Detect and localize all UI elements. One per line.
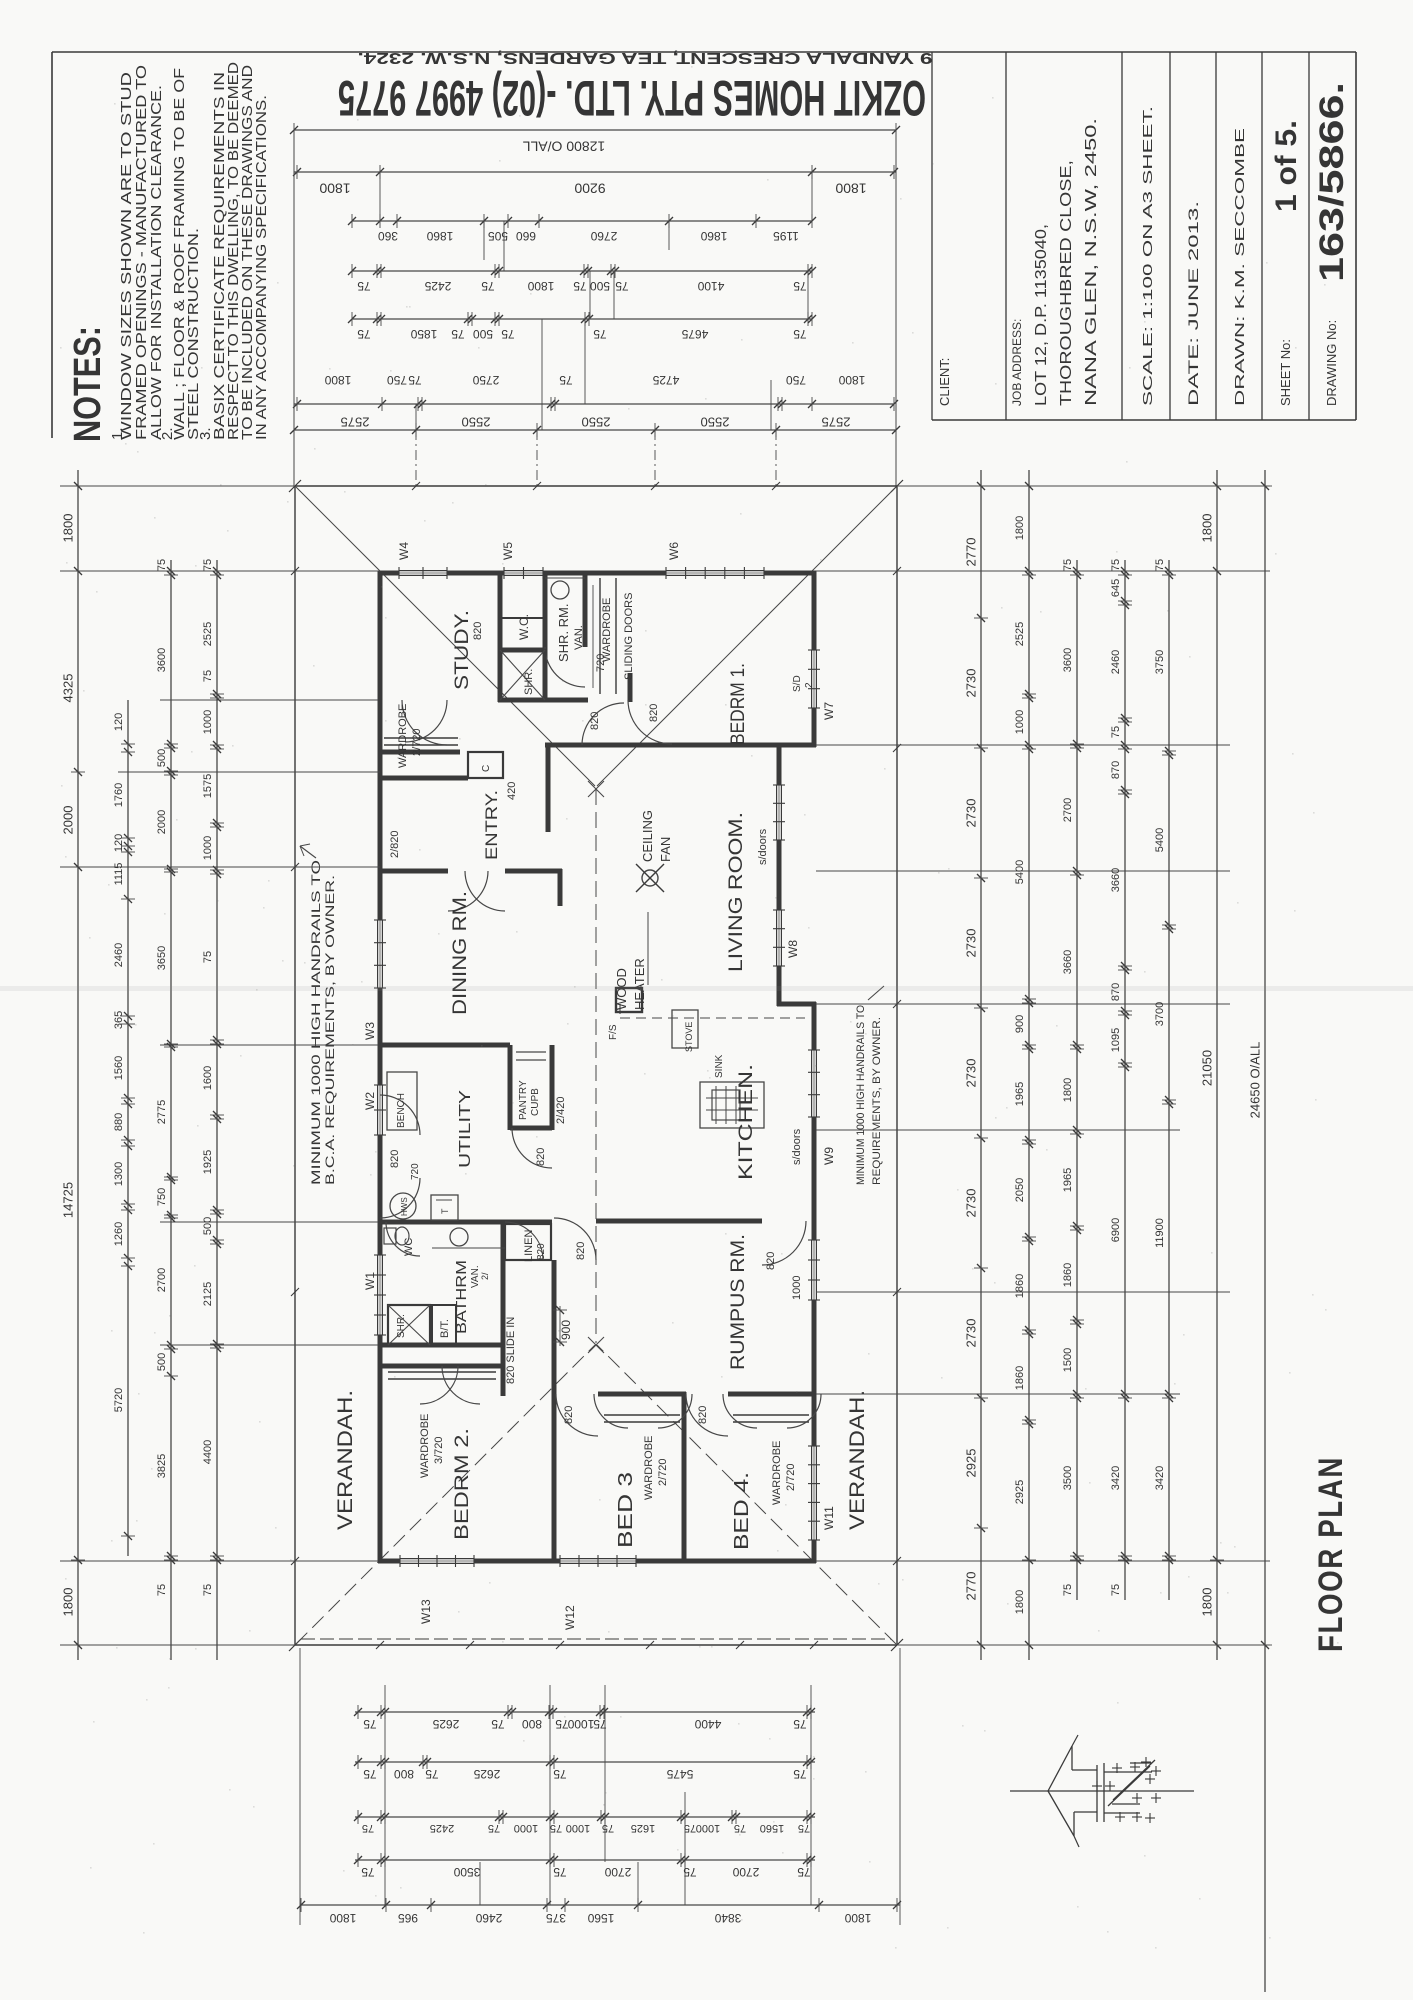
svg-text:s/doors: s/doors bbox=[791, 1128, 803, 1165]
bottom dim row 4 bbox=[354, 1853, 815, 1879]
svg-text:4725: 4725 bbox=[652, 373, 679, 387]
svg-text:T: T bbox=[440, 1208, 450, 1214]
svg-text:3840: 3840 bbox=[714, 1911, 741, 1925]
svg-text:75: 75 bbox=[793, 327, 807, 341]
svg-text:75: 75 bbox=[1154, 559, 1166, 571]
svg-text:CEILING: CEILING bbox=[640, 810, 655, 862]
svg-text:F/S: F/S bbox=[608, 1024, 619, 1040]
svg-text:FAN: FAN bbox=[658, 837, 673, 862]
svg-text:2925: 2925 bbox=[1014, 1480, 1026, 1504]
svg-text:1860: 1860 bbox=[426, 229, 453, 243]
svg-text:75: 75 bbox=[357, 279, 371, 293]
svg-text:3420: 3420 bbox=[1154, 1466, 1166, 1490]
wall bed3/bed4 divider bbox=[682, 1392, 687, 1563]
svg-text:2/420: 2/420 bbox=[555, 1096, 567, 1124]
label KITCHEN bbox=[736, 1064, 757, 1180]
svg-text:12800 O/ALL: 12800 O/ALL bbox=[523, 138, 606, 154]
svg-text:75: 75 bbox=[734, 1822, 746, 1834]
wall bed1 west stub bbox=[628, 673, 633, 702]
wood heater box bbox=[616, 912, 648, 1012]
svg-text:1000: 1000 bbox=[696, 1822, 720, 1834]
label WC ensuite bbox=[517, 614, 531, 640]
text SCALE bbox=[1140, 106, 1155, 406]
window W3 bbox=[363, 920, 386, 1040]
handrail note left bbox=[309, 860, 337, 1185]
svg-text:75: 75 bbox=[1062, 1584, 1074, 1596]
bed3 wardrobe slides bbox=[604, 1415, 680, 1422]
utility bench bbox=[387, 1072, 417, 1130]
svg-text:500: 500 bbox=[473, 327, 493, 341]
svg-text:1300: 1300 bbox=[113, 1162, 125, 1186]
svg-text:2000: 2000 bbox=[156, 810, 168, 834]
svg-text:75: 75 bbox=[202, 559, 214, 571]
svg-text:500: 500 bbox=[156, 1353, 168, 1371]
svg-text:4325: 4325 bbox=[60, 674, 75, 703]
svg-text:75: 75 bbox=[593, 327, 607, 341]
svg-text:B.C.A. REQUIREMENTS, BY OWNER.: B.C.A. REQUIREMENTS, BY OWNER. bbox=[323, 875, 337, 1185]
svg-text:2/720: 2/720 bbox=[785, 1463, 797, 1491]
svg-text:75: 75 bbox=[156, 1584, 168, 1596]
handrail note right leader bbox=[868, 986, 884, 1000]
wall study right bbox=[498, 573, 503, 702]
label VERANDAH right bbox=[846, 1390, 869, 1530]
wall ensuite bottom bbox=[498, 698, 588, 703]
svg-text:820: 820 bbox=[575, 1242, 587, 1260]
svg-text:2770: 2770 bbox=[963, 538, 978, 567]
svg-text:1115: 1115 bbox=[113, 863, 125, 886]
label 820 pantry bbox=[535, 1148, 547, 1166]
label 820 utility doors bbox=[389, 1150, 421, 1180]
svg-text:75: 75 bbox=[684, 1822, 696, 1834]
dim row 2425 1800 4100 bbox=[348, 264, 816, 293]
svg-text:75: 75 bbox=[793, 1767, 807, 1781]
svg-text:9 YANDALA CRESCENT, TEA GARDEN: 9 YANDALA CRESCENT, TEA GARDENS, N.S.W. … bbox=[358, 49, 933, 66]
extension lines right bbox=[816, 486, 1270, 1645]
svg-text:800: 800 bbox=[522, 1717, 542, 1731]
svg-text:720: 720 bbox=[410, 1163, 421, 1180]
svg-text:660: 660 bbox=[516, 229, 536, 243]
door arc bed1 820 bbox=[628, 700, 672, 744]
label wardrobe study bbox=[397, 704, 423, 768]
right chain 24650 overall bbox=[1247, 470, 1272, 1992]
label PANTRY CUPB bbox=[518, 1080, 541, 1120]
notes body text bbox=[109, 62, 270, 440]
svg-text:W11: W11 bbox=[822, 1506, 836, 1530]
svg-text:1625: 1625 bbox=[631, 1822, 655, 1834]
window W12 bbox=[560, 1555, 636, 1630]
label ENTRY bbox=[482, 790, 501, 860]
svg-text:5475: 5475 bbox=[666, 1767, 693, 1781]
wall bath/bed2 y1345 bbox=[380, 1343, 505, 1348]
door arc dining second bbox=[465, 871, 505, 911]
right chain 5 bbox=[1154, 559, 1176, 1600]
label wardrobe bed2 bbox=[419, 1414, 445, 1478]
door arc ensuite 720 bbox=[545, 647, 585, 687]
svg-text:820: 820 bbox=[536, 1243, 547, 1260]
svg-text:900: 900 bbox=[559, 1320, 573, 1340]
svg-text:NOTES:: NOTES: bbox=[67, 326, 109, 442]
door arc wc bbox=[386, 1222, 420, 1256]
svg-text:ENTRY.: ENTRY. bbox=[482, 790, 501, 860]
svg-text:BED 4.: BED 4. bbox=[731, 1472, 753, 1550]
wall entry/living stub bbox=[546, 743, 551, 832]
svg-text:1850: 1850 bbox=[410, 327, 437, 341]
dim row window positions bbox=[348, 214, 816, 243]
svg-text:S/D: S/D bbox=[792, 675, 803, 692]
sliding doors living bbox=[757, 785, 785, 865]
svg-text:75: 75 bbox=[408, 373, 422, 387]
svg-text:W13: W13 bbox=[419, 1599, 433, 1624]
svg-text:3420: 3420 bbox=[1110, 1466, 1122, 1490]
label CEILING FAN bbox=[640, 810, 673, 862]
title block dividers bbox=[932, 52, 1309, 420]
label wardrobe bed3 bbox=[643, 1436, 669, 1500]
label SHR ensuite small bbox=[523, 669, 535, 695]
svg-text:1800: 1800 bbox=[1014, 1590, 1026, 1614]
label BED 4 bbox=[731, 1472, 753, 1550]
svg-text:21050: 21050 bbox=[1199, 1050, 1214, 1086]
window 1000 rumpus bbox=[791, 1240, 820, 1300]
svg-text:DRAWN: K.M. SECCOMBE: DRAWN: K.M. SECCOMBE bbox=[1232, 127, 1247, 406]
svg-text:W9: W9 bbox=[822, 1147, 836, 1165]
wall utility/bath y1222 bbox=[380, 1220, 552, 1225]
text THOROUGHBRED CLOSE bbox=[1058, 160, 1075, 406]
north arrow bbox=[1010, 1735, 1194, 1847]
dim row 9200 bbox=[293, 165, 898, 196]
svg-text:75: 75 bbox=[202, 1584, 214, 1596]
label SLIDING DOORS bbox=[623, 593, 635, 680]
svg-text:1000: 1000 bbox=[514, 1822, 538, 1834]
svg-text:LOT 12, D.P. 1135040,: LOT 12, D.P. 1135040, bbox=[1033, 224, 1050, 406]
svg-text:2/820: 2/820 bbox=[389, 830, 401, 858]
svg-text:BENCH: BENCH bbox=[396, 1093, 407, 1128]
svg-text:75: 75 bbox=[1110, 559, 1122, 571]
svg-text:1800: 1800 bbox=[1014, 516, 1026, 540]
svg-text:2760: 2760 bbox=[590, 229, 617, 243]
exterior wall jog at bed1/living bbox=[777, 743, 816, 748]
label JOB ADDRESS bbox=[1010, 319, 1024, 406]
svg-text:1965: 1965 bbox=[1014, 1082, 1026, 1106]
svg-text:WC: WC bbox=[403, 1238, 415, 1256]
svg-text:WARDROBE: WARDROBE bbox=[419, 1414, 431, 1478]
extension lines left bbox=[60, 486, 380, 1645]
label SHEET No bbox=[1278, 339, 1293, 406]
door arc bed2 robe 1 bbox=[420, 1366, 458, 1404]
label 820 bed4 bbox=[697, 1406, 709, 1424]
left chain overall bbox=[60, 470, 85, 1660]
svg-text:75: 75 bbox=[156, 559, 168, 571]
svg-text:720: 720 bbox=[595, 654, 607, 672]
svg-text:1965: 1965 bbox=[1062, 1168, 1074, 1192]
svg-text:75: 75 bbox=[202, 951, 214, 963]
svg-text:1800: 1800 bbox=[527, 279, 554, 293]
wall hall/bed3 x554 bbox=[552, 1260, 557, 1563]
svg-text:MINIMUM 1000 HIGH HANDRAILS TO: MINIMUM 1000 HIGH HANDRAILS TO bbox=[309, 860, 323, 1185]
svg-text:3660: 3660 bbox=[1110, 868, 1122, 892]
svg-text:75: 75 bbox=[602, 1822, 614, 1834]
exterior wall top bbox=[378, 571, 816, 576]
svg-text:BATHRM: BATHRM bbox=[453, 1260, 470, 1334]
dim row 2750 4725 bbox=[293, 373, 898, 411]
svg-text:24650 O/ALL: 24650 O/ALL bbox=[1247, 1042, 1262, 1119]
svg-text:WARDROBE: WARDROBE bbox=[643, 1436, 655, 1500]
dim row 2575 2550 bbox=[290, 415, 900, 437]
label BEDRM 1 bbox=[728, 663, 749, 745]
label STUDY bbox=[452, 610, 473, 690]
label 820 ensuite door bbox=[589, 712, 601, 730]
svg-text:HWS: HWS bbox=[400, 1197, 409, 1216]
door arc bed4 820 bbox=[686, 1394, 728, 1436]
svg-text:2/720: 2/720 bbox=[411, 728, 423, 756]
svg-text:UTILITY: UTILITY bbox=[457, 1090, 474, 1168]
svg-text:2730: 2730 bbox=[963, 1319, 978, 1348]
scan streak bbox=[0, 986, 1413, 991]
svg-text:1600: 1600 bbox=[202, 1066, 214, 1090]
wall entry south bbox=[380, 776, 468, 781]
label DRAWING No bbox=[1324, 320, 1339, 406]
svg-text:820: 820 bbox=[472, 622, 484, 640]
label LINEN bbox=[523, 1230, 547, 1262]
label WC bath bbox=[403, 1238, 415, 1256]
svg-text:2925: 2925 bbox=[963, 1449, 978, 1478]
svg-text:CUPB: CUPB bbox=[530, 1088, 541, 1116]
svg-text:1000: 1000 bbox=[202, 710, 214, 734]
bath tub bbox=[432, 1305, 456, 1345]
label 2/820 dining bbox=[389, 830, 401, 858]
svg-text:365: 365 bbox=[113, 1011, 125, 1029]
wall dining east stub bbox=[558, 869, 563, 906]
sheet right border bbox=[1355, 52, 1357, 420]
svg-text:3825: 3825 bbox=[156, 1454, 168, 1478]
svg-text:2/: 2/ bbox=[480, 1272, 490, 1280]
svg-text:3660: 3660 bbox=[1062, 950, 1074, 974]
svg-text:3500: 3500 bbox=[453, 1865, 480, 1879]
text address line bbox=[358, 49, 933, 66]
svg-text:2125: 2125 bbox=[202, 1282, 214, 1306]
roof hip line top-right bbox=[597, 487, 896, 786]
label B/T bbox=[439, 1319, 451, 1338]
svg-text:1925: 1925 bbox=[202, 1150, 214, 1174]
wall ensuite right bbox=[583, 573, 588, 647]
shower box ensuite bbox=[500, 650, 545, 700]
bottom dim row 2 bbox=[354, 1755, 815, 1781]
svg-text:75: 75 bbox=[793, 279, 807, 293]
label VERANDAH left bbox=[334, 1390, 357, 1530]
svg-text:645: 645 bbox=[1110, 579, 1122, 597]
svg-text:BEDRM 1.: BEDRM 1. bbox=[728, 663, 749, 745]
svg-text:1760: 1760 bbox=[113, 783, 125, 807]
svg-text:2730: 2730 bbox=[963, 799, 978, 828]
bottom dim row 1 bbox=[354, 1705, 815, 1731]
exterior wall right lower bbox=[812, 1002, 817, 1563]
pantry cupboard bbox=[510, 1045, 552, 1130]
svg-text:75: 75 bbox=[1110, 1584, 1122, 1596]
svg-text:SHEET No:: SHEET No: bbox=[1278, 339, 1293, 406]
exterior wall bottom bbox=[378, 1559, 816, 1564]
svg-text:965: 965 bbox=[398, 1911, 418, 1925]
svg-text:SCALE: 1:100 ON A3 SHEET.: SCALE: 1:100 ON A3 SHEET. bbox=[1140, 106, 1155, 406]
door arc bed3 robe bbox=[594, 1394, 692, 1428]
label WOOD HEATER bbox=[614, 958, 647, 1010]
svg-text:2730: 2730 bbox=[963, 1189, 978, 1218]
svg-text:W3: W3 bbox=[363, 1022, 377, 1040]
svg-text:1800: 1800 bbox=[60, 1588, 75, 1617]
svg-text:75: 75 bbox=[481, 279, 495, 293]
label 820 SLIDE IN bbox=[505, 1317, 517, 1384]
sliding doors kitchen W9 bbox=[791, 1050, 836, 1165]
door arc utility left bbox=[380, 1095, 420, 1135]
label 820 rumpus door bbox=[575, 1242, 587, 1260]
bath shower box bbox=[388, 1305, 430, 1345]
text NOTES heading bbox=[67, 326, 109, 442]
svg-text:1860: 1860 bbox=[1062, 1263, 1074, 1287]
svg-text:2575: 2575 bbox=[341, 415, 370, 430]
svg-text:FLOOR PLAN: FLOOR PLAN bbox=[1312, 1456, 1350, 1652]
svg-text:1560: 1560 bbox=[587, 1911, 614, 1925]
svg-text:W8: W8 bbox=[786, 940, 800, 958]
svg-text:2000: 2000 bbox=[60, 806, 75, 835]
bed4 wardrobe slides bbox=[733, 1415, 809, 1422]
svg-text:2625: 2625 bbox=[473, 1767, 500, 1781]
svg-text:500: 500 bbox=[156, 749, 168, 767]
label SINK bbox=[714, 1054, 725, 1078]
sheet left border bbox=[51, 52, 53, 438]
svg-text:750: 750 bbox=[786, 373, 806, 387]
svg-text:2700: 2700 bbox=[1062, 798, 1074, 822]
svg-text:1000: 1000 bbox=[202, 836, 214, 860]
svg-text:1195: 1195 bbox=[773, 229, 799, 243]
kitchen sink unit bbox=[700, 1082, 764, 1128]
svg-text:75: 75 bbox=[425, 1767, 439, 1781]
svg-text:DATE: JUNE 2013.: DATE: JUNE 2013. bbox=[1185, 201, 1201, 406]
svg-text:W1: W1 bbox=[363, 1272, 377, 1290]
svg-text:WARDROBE: WARDROBE bbox=[601, 598, 613, 662]
svg-text:360: 360 bbox=[378, 229, 398, 243]
svg-text:900: 900 bbox=[1014, 1015, 1026, 1033]
svg-text:W6: W6 bbox=[667, 542, 681, 560]
kitchen stove bbox=[672, 1010, 698, 1052]
hot water system bbox=[390, 1193, 416, 1219]
handrail note right bbox=[855, 1005, 883, 1185]
svg-text:3750: 3750 bbox=[1154, 650, 1166, 674]
svg-text:W2: W2 bbox=[363, 1092, 377, 1110]
svg-text:1860: 1860 bbox=[1014, 1274, 1026, 1298]
svg-text:1260: 1260 bbox=[113, 1222, 125, 1246]
linen closet bbox=[505, 1224, 551, 1260]
door arc utility left2 bbox=[380, 1178, 420, 1218]
door arc bed2 robe 2 bbox=[442, 1366, 480, 1404]
door arc dining 2/820 bbox=[448, 871, 488, 911]
svg-text:1575: 1575 bbox=[202, 774, 214, 798]
door arc linen 820 bbox=[505, 1222, 543, 1260]
left chain C bbox=[156, 559, 178, 1660]
bottom dim row 3 bbox=[354, 1810, 815, 1834]
svg-text:75: 75 bbox=[491, 1717, 505, 1731]
svg-text:THOROUGHBRED CLOSE,: THOROUGHBRED CLOSE, bbox=[1058, 160, 1075, 406]
window W7 bbox=[808, 650, 836, 720]
svg-text:1800: 1800 bbox=[319, 180, 350, 196]
roof hip line bottom-left dashed bbox=[296, 1345, 595, 1644]
svg-text:2730: 2730 bbox=[963, 929, 978, 958]
svg-text:75: 75 bbox=[798, 1822, 810, 1834]
label UTILITY bbox=[457, 1090, 474, 1168]
svg-text:75: 75 bbox=[559, 373, 573, 387]
svg-text:75: 75 bbox=[363, 1717, 377, 1731]
svg-text:LINEN: LINEN bbox=[523, 1230, 535, 1262]
label wardrobe bed4 bbox=[771, 1441, 797, 1505]
svg-text:505: 505 bbox=[488, 229, 508, 243]
wall bed4 north bbox=[728, 1392, 814, 1397]
svg-text:2050: 2050 bbox=[1014, 1178, 1026, 1202]
svg-text:W7: W7 bbox=[822, 702, 836, 720]
right chain 2 bbox=[1014, 470, 1036, 1660]
svg-text:75: 75 bbox=[593, 1717, 607, 1731]
svg-text:2525: 2525 bbox=[1014, 622, 1026, 646]
svg-text:820: 820 bbox=[563, 1406, 575, 1424]
svg-text:OZKIT HOMES PTY. LTD. -(02) 49: OZKIT HOMES PTY. LTD. -(02) 4997 9775 bbox=[338, 70, 926, 126]
svg-text:W12: W12 bbox=[563, 1605, 577, 1630]
svg-text:75: 75 bbox=[573, 279, 587, 293]
svg-text:4100: 4100 bbox=[697, 279, 724, 293]
label SHR bath bbox=[396, 1314, 407, 1338]
left chain B bbox=[113, 700, 135, 1556]
svg-text:STOVE: STOVE bbox=[684, 1022, 694, 1052]
svg-text:LIVING ROOM.: LIVING ROOM. bbox=[726, 812, 747, 972]
svg-text:1800: 1800 bbox=[838, 373, 865, 387]
window W6 bbox=[666, 542, 764, 579]
svg-text:500: 500 bbox=[590, 279, 610, 293]
svg-text:375: 375 bbox=[546, 1911, 566, 1925]
text 163/5866 bbox=[1313, 82, 1351, 282]
svg-text:75: 75 bbox=[553, 1767, 567, 1781]
svg-text:2700: 2700 bbox=[604, 1865, 631, 1879]
wall bed3 north bbox=[598, 1392, 686, 1397]
svg-text:5720: 5720 bbox=[113, 1388, 125, 1412]
right chain 1 bbox=[963, 470, 988, 1660]
label BATHRM bbox=[453, 1260, 470, 1334]
roof ridge dashed bbox=[595, 789, 597, 1343]
roof hip line top-left bbox=[296, 487, 595, 786]
svg-text:SLIDING DOORS: SLIDING DOORS bbox=[623, 593, 635, 680]
svg-text:14725: 14725 bbox=[60, 1182, 75, 1218]
label 720 bbox=[595, 654, 607, 672]
wall wc/ensuite divider bbox=[543, 573, 548, 700]
svg-text:C: C bbox=[481, 765, 492, 772]
svg-text:2750: 2750 bbox=[472, 373, 499, 387]
title block bottom border bbox=[932, 419, 1356, 421]
svg-text:2: 2 bbox=[804, 682, 815, 688]
svg-text:3600: 3600 bbox=[156, 648, 168, 672]
svg-text:75: 75 bbox=[362, 1822, 374, 1834]
svg-text:75: 75 bbox=[550, 1822, 562, 1834]
svg-text:163/5866.: 163/5866. bbox=[1313, 82, 1351, 282]
svg-text:2700: 2700 bbox=[732, 1865, 759, 1879]
exterior wall jog at living/kitchen bbox=[777, 1002, 816, 1007]
svg-text:1000: 1000 bbox=[1014, 710, 1026, 734]
svg-text:5400: 5400 bbox=[1014, 860, 1026, 884]
svg-text:RUMPUS RM.: RUMPUS RM. bbox=[728, 1234, 749, 1370]
label 820 kitchen door bbox=[765, 1252, 777, 1270]
svg-text:s/doors: s/doors bbox=[757, 828, 769, 865]
svg-text:75: 75 bbox=[357, 327, 371, 341]
svg-text:420: 420 bbox=[506, 782, 518, 800]
text DRAWN bbox=[1232, 127, 1247, 406]
bed1 wardrobe slides bbox=[593, 578, 616, 694]
svg-text:4675: 4675 bbox=[681, 327, 708, 341]
svg-text:VERANDAH.: VERANDAH. bbox=[846, 1390, 869, 1530]
svg-text:6900: 6900 bbox=[1110, 1218, 1122, 1242]
roof hip line bottom-right dashed bbox=[597, 1345, 896, 1644]
